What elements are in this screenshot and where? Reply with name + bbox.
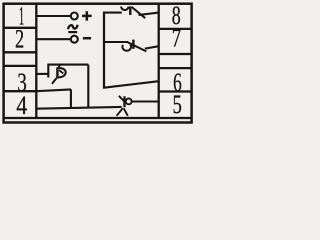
photothyristor V2 gate diagonal: [127, 42, 147, 52]
AC/DC symbol tilde: [68, 25, 78, 29]
wire pin1 to plus terminal: [36, 15, 71, 17]
pin 1 / pin 2 divider: [3, 27, 37, 29]
plus sign: [82, 11, 92, 20]
photothyristor V1 light cup: [121, 7, 129, 10]
V3 light leg right: [124, 108, 128, 116]
phototransistor VT1 body arc: [59, 68, 66, 77]
right pin column line: [158, 4, 160, 118]
pin 2 lower divider: [3, 51, 37, 53]
terminal circle minus: [71, 36, 78, 43]
V3 light leg left: [117, 108, 123, 116]
wire bus to thyristor V1 anode: [103, 12, 122, 14]
terminal circle plus: [71, 13, 78, 20]
pin 8 / pin 7 divider: [159, 28, 193, 30]
minus sign: [83, 37, 91, 40]
svg-text:4: 4: [16, 91, 27, 120]
photothyristor V1 cathode bar: [129, 6, 131, 15]
pin 3 / pin 4 divider: [3, 90, 37, 92]
photothyristor V3 gate diagonal: [119, 96, 124, 102]
wire bus to thyristor V2 anode: [104, 41, 128, 43]
wire V1 to pin 8: [139, 13, 159, 15]
pin 3 upper divider: [3, 65, 37, 67]
collector top wire: [47, 64, 88, 66]
photothyristor V1 gate diagonal: [132, 7, 146, 18]
collector drop vertical: [87, 65, 89, 108]
svg-text:7: 7: [172, 23, 181, 52]
wire V3 to pin 5: [131, 100, 158, 102]
wire pin2 to minus terminal: [36, 38, 71, 40]
left pin column line: [35, 4, 37, 118]
pin 6 / pin 5 divider: [159, 90, 193, 92]
emitter bottom rail: [36, 107, 121, 109]
photothyristor V3 light circle: [126, 99, 132, 105]
wire V2 to pin 7: [145, 46, 159, 48]
output bus vertical: [103, 12, 105, 88]
svg-text:5: 5: [173, 90, 182, 119]
border frame: [4, 4, 192, 123]
phototransistor collector vertical: [47, 65, 49, 78]
pin 6 upper divider: [159, 67, 193, 69]
AC/DC symbol underline: [68, 31, 77, 33]
package bottom line: [3, 117, 192, 119]
svg-text:2: 2: [15, 25, 24, 54]
photothyristor V3 cathode bar: [123, 96, 125, 107]
pin4 loop box top: [36, 89, 71, 91]
wire pin3 stub: [36, 73, 48, 75]
phototransistor VT1 emitter diagonal: [52, 78, 56, 84]
pin4 loop box right: [70, 89, 72, 107]
photothyristor V2 cathode bar: [132, 40, 134, 49]
phototransistor VT1 collector diagonal: [58, 64, 60, 68]
wire bus to pin 6: [103, 81, 159, 88]
pin 7 lower divider: [159, 53, 193, 55]
phototransistor VT1 base bar: [56, 67, 58, 78]
photothyristor V2 light arc: [122, 45, 131, 51]
phototransistor VT1 light tick: [59, 70, 63, 73]
